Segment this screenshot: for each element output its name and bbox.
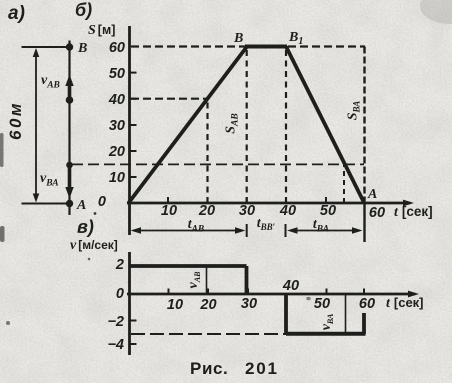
vertical path line AB [68,41,70,216]
corner shade top right [420,0,452,24]
dashed vertical t=30 [246,47,248,204]
svg-text:Рис.: Рис. [190,359,228,378]
svg-text:30: 30 [239,203,255,219]
svg-text:30: 30 [241,296,257,312]
dashed level v=-3 [131,333,286,335]
scan smudge left edge lower [0,226,5,242]
solid vertical t=60 lower [363,203,365,242]
v t axis arrowhead [408,291,419,298]
svg-text:60: 60 [369,205,385,221]
t tick 30 [246,197,248,203]
v t axis [127,293,415,296]
svg-text:A: A [76,198,86,213]
S tick 30 [130,124,137,126]
svg-text:B: B [233,31,243,46]
t axis [127,202,410,205]
t tick 10 [167,197,169,203]
vector v_BA (down arrow) [68,167,72,189]
scan speck near 0 [94,212,97,215]
svg-text:50: 50 [320,203,336,219]
svg-text:0: 0 [98,194,106,210]
svg-text:40: 40 [279,203,296,219]
v axis [128,252,131,355]
svg-text:20: 20 [198,203,215,219]
t_BA dimension arrow [290,230,360,232]
scan speck bottom left [6,321,10,325]
scan speck near 50 bottom [306,297,310,301]
dashed vertical t=40 [285,47,287,204]
curve descent B1 to A [286,47,364,203]
t tick 60 bottom [363,289,365,295]
t tick 10 bottom [168,289,170,295]
svg-text:0: 0 [116,286,124,302]
svg-text:б): б) [75,0,92,20]
svg-text:10: 10 [167,297,183,313]
bar at t=40 [285,224,287,237]
svg-text:−4: −4 [107,337,124,353]
svg-text:−2: −2 [107,314,124,330]
t_AB dimension arrow [134,230,242,232]
scan speck left mid [88,258,91,261]
S tick 40 [130,98,137,100]
svg-text:201: 201 [245,359,279,378]
t tick 20 [207,197,209,203]
dashed horizontal at S=60 right [288,45,365,47]
curve rise 0 to B [129,47,248,204]
t axis arrowhead [403,200,414,207]
curve plateau B to B1 [245,45,287,49]
v tick -4 [130,343,137,345]
t tick 40 [285,197,287,203]
point A dot [66,200,73,207]
dashed vertical t=20 [206,99,208,203]
t tick 20 bottom [207,289,209,295]
scan smudge left edge upper [0,133,4,167]
double arrow 60 m extent [35,52,37,199]
dot at 40 m point [66,96,74,104]
vector v_AB (up arrow) [68,84,72,99]
svg-text:10: 10 [161,203,177,219]
thin vertical t=20 in v=2 box [206,267,208,294]
S axis [128,26,131,235]
svg-text:50: 50 [314,296,330,312]
svg-text:B: B [77,41,87,56]
long dashed horizontal at 15 m [72,163,364,165]
svg-text:A: A [367,187,377,202]
pulse left edge t=40 [284,293,288,334]
svg-text:50: 50 [109,66,125,82]
v step drop at t=30 [245,266,249,294]
svg-text:20: 20 [199,297,216,313]
dot at 15 m point [66,162,73,169]
svg-text:60: 60 [359,296,375,312]
t tick 50 [325,197,327,203]
dashed horizontal at S=40 [131,98,206,100]
top tick at B level [22,46,71,48]
dashed horizontal at S=60 left [131,45,245,47]
pulse right stub t=60 [362,313,366,334]
svg-text:20: 20 [108,144,125,160]
dashed vertical t=60 upper [363,47,365,204]
svg-text:40: 40 [108,92,125,108]
svg-text:S[м]: S[м] [88,23,115,38]
v=2 step line [130,264,247,268]
pulse bottom v=-3 [286,332,366,336]
svg-text:10: 10 [109,170,125,186]
svg-text:60: 60 [109,40,125,56]
svg-text:2: 2 [115,257,124,273]
svg-text:40: 40 [282,278,299,294]
svg-text:30: 30 [109,118,125,134]
t tick 30 bottom [247,289,249,295]
bar at t=30 [246,224,248,237]
S tick 20 [130,150,137,152]
thin vertical t=55 bottom [345,294,347,334]
dashed vertical t=55 [343,164,345,203]
bottom tick at A level [22,203,71,205]
svg-text:а): а) [8,3,25,24]
svg-text:60м: 60м [6,101,25,140]
t tick 50 bottom [326,289,328,295]
svg-text:в): в) [77,217,94,237]
S tick 10 [130,176,137,178]
S tick 50 [130,72,137,74]
point B dot [66,43,73,50]
v tick -2 [130,320,137,322]
